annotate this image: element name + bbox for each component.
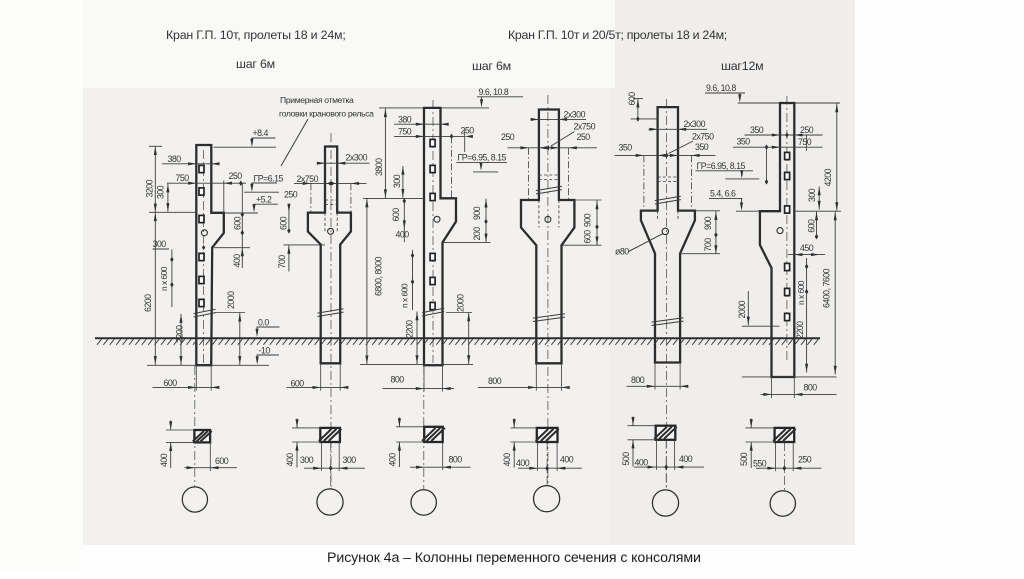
section S6 centerline [783,442,785,491]
svg-text:900: 900 [582,213,592,227]
section S2 centerline [330,442,332,489]
rail axis line K1 [241,183,243,214]
svg-text:300: 300 [153,239,167,249]
column K2 hidden lines [325,199,337,201]
svg-text:2x300: 2x300 [346,152,368,162]
rail axes K2 [310,183,312,212]
svg-text:400: 400 [159,453,169,467]
svg-text:600: 600 [582,230,592,244]
svg-text:600: 600 [233,216,243,230]
rail axis K3 [451,136,453,198]
extension line K3 console level left [363,197,424,199]
section S2 hatched [319,428,341,442]
section S5 extension lines [628,425,656,427]
foundation bottom extension line [147,364,269,366]
note leader line [281,119,308,166]
pile circle S6 [770,491,795,516]
svg-text:n x 600: n x 600 [796,280,806,305]
section S6 hatched [773,428,795,442]
section S1 extension lines [166,429,194,431]
pile circle S2 [317,489,343,515]
rail axis K6 right [805,135,807,151]
svg-text:250: 250 [461,125,475,135]
column K3 embed plates [430,139,435,146]
svg-text:900: 900 [703,216,713,230]
column K1 embed plates [199,165,204,172]
column K1 outline [196,145,224,365]
section S5 dim 500 [632,417,634,426]
svg-text:головки кранового рельса: головки кранового рельса [279,109,374,119]
section S5 dims 400 400 [656,440,658,470]
svg-text:400: 400 [285,453,295,467]
svg-text:350: 350 [695,142,709,152]
svg-text:250: 250 [284,190,298,200]
column K4 hidden lines [539,174,559,176]
extension line K3 bottom [360,363,473,365]
column K1 hinge circle [201,230,207,236]
svg-text:500: 500 [621,452,631,466]
column K6 outline [760,103,794,377]
svg-text:250: 250 [798,455,812,465]
extension lines K5 right [695,210,720,212]
svg-text:750: 750 [798,137,812,147]
svg-text:600: 600 [164,378,178,388]
section S6 dims 550 250 [775,442,777,471]
rail dimension line K4 [508,147,598,149]
svg-text:800: 800 [488,376,502,386]
column K2 hinge circle [328,228,334,234]
level line +5.2 console top [224,212,258,214]
svg-text:300: 300 [392,174,402,188]
ground hatching [97,339,818,345]
section S1 hatched [193,430,212,442]
svg-text:400: 400 [502,453,512,467]
svg-text:ø80: ø80 [615,247,629,257]
svg-text:ГР=6.15: ГР=6.15 [254,173,284,183]
svg-text:шаг12м: шаг12м [721,59,763,73]
column K1 node diamond [202,245,205,250]
svg-text:800: 800 [449,455,463,465]
svg-text:300: 300 [300,455,314,465]
svg-text:9.6, 10.8: 9.6, 10.8 [479,87,509,97]
svg-text:2200: 2200 [795,321,805,339]
svg-text:380: 380 [398,114,412,124]
section S4 dims 400 400 [537,442,539,471]
section S2 extension lines [292,427,320,429]
section S3 hatched [422,427,445,442]
svg-text:Кран Г.П. 10т, пролеты 18 и 24: Кран Г.П. 10т, пролеты 18 и 24м; [166,28,346,42]
extension line K3 break level [446,312,472,314]
svg-text:3800: 3800 [374,158,384,176]
svg-text:750: 750 [398,127,412,137]
svg-text:550: 550 [753,459,767,469]
svg-text:6400, 7600: 6400, 7600 [822,268,832,308]
section S4 dim 400 vertical [513,419,515,428]
svg-text:250: 250 [229,171,243,181]
svg-text:+5.2: +5.2 [256,194,272,204]
level line GR1 [473,171,498,173]
column K5 hidden lines [658,176,678,178]
extension line K4 taper end [563,244,602,246]
pile circle S1 [182,487,207,512]
svg-text:250: 250 [577,132,591,142]
section S4 centerline [546,442,548,485]
extension line K6 console level right [795,210,842,212]
svg-text:Примерная отметка: Примерная отметка [280,95,354,105]
column K6 hinge circle [777,228,783,234]
extension line K6 console level left [736,210,760,212]
ground line [95,337,820,339]
svg-text:шаг 6м: шаг 6м [472,59,511,73]
svg-text:Кран Г.П. 10т и 20/5т; пролеты: Кран Г.П. 10т и 20/5т; пролеты 18 и 24м; [508,28,727,42]
svg-text:2x300: 2x300 [684,119,706,129]
column K3 top level line [379,107,489,109]
svg-text:250: 250 [800,125,814,135]
column K2 break mark [318,309,344,313]
section S5 hatched [654,426,676,440]
hole circle K5 [662,228,668,234]
section S3 centerline [423,366,425,490]
column K3 break mark [422,308,444,312]
column K4 hinge circle [545,216,551,222]
column K1 break mark [194,309,216,313]
svg-text:400: 400 [232,254,242,268]
section S4 hatched [536,428,559,442]
svg-text:400: 400 [396,229,410,239]
column K1 axis centerline [203,150,205,363]
column K3 axis centerline [432,100,434,363]
section S1 centerline [194,366,196,487]
column K4 axis centerline [547,95,549,485]
extension line K1 taper end [214,247,250,249]
extension lines K3 console right [456,197,491,199]
svg-text:500: 500 [739,452,749,466]
column K5 break mark [655,196,681,200]
extension line K6 2000 [742,325,780,327]
rail dimension line K5 [615,154,716,156]
svg-text:ГР=6.95, 8.15: ГР=6.95, 8.15 [697,161,746,171]
extension line K1 break level [214,312,245,314]
svg-text:300: 300 [156,185,166,199]
svg-text:600: 600 [391,208,401,222]
rail axis K6 [766,147,768,182]
pile circle S4 [534,486,560,512]
svg-text:n x 600: n x 600 [400,283,410,308]
svg-text:2x750: 2x750 [574,122,596,132]
svg-text:250: 250 [501,132,515,142]
svg-text:700: 700 [703,238,713,252]
column K2 axis centerline [330,133,332,489]
svg-text:2000: 2000 [456,294,466,312]
section S2 dim 400 [296,419,298,428]
svg-text:2200: 2200 [404,320,414,338]
svg-text:300: 300 [343,455,357,465]
svg-text:400: 400 [560,455,574,465]
svg-text:ГР=6.95, 8.15: ГР=6.95, 8.15 [458,153,507,163]
section S3 extension lines [396,426,424,428]
extension line console level K1 left [149,211,196,213]
section S5 centerline [665,440,667,490]
svg-text:2000: 2000 [226,291,236,309]
svg-text:2x750: 2x750 [692,132,714,142]
extension line K5 600 [631,118,658,120]
svg-text:3200: 3200 [145,179,155,197]
pile circle S5 [652,490,678,516]
section S3 dim 400 [398,418,400,427]
svg-text:600: 600 [807,219,817,233]
svg-text:600: 600 [291,378,305,388]
rail axes K5 [643,155,645,210]
svg-text:шаг 6м: шаг 6м [236,57,275,71]
extension line K2 taper end [284,244,326,246]
svg-text:2x300: 2x300 [564,109,586,119]
svg-text:400: 400 [387,453,397,467]
section S6 dim 500 [750,419,752,428]
svg-text:Рисунок 4а – Колонны переменно: Рисунок 4а – Колонны переменного сечения… [327,550,701,566]
svg-text:5.4, 6.6: 5.4, 6.6 [710,188,736,198]
rail axes K4 [528,148,530,200]
svg-text:0.0: 0.0 [258,317,269,327]
svg-text:900: 900 [472,206,482,220]
svg-text:2200: 2200 [175,325,185,343]
level line GR2 [725,178,759,180]
extension line K6 bottom [742,376,837,378]
svg-text:600: 600 [215,456,229,466]
svg-text:800: 800 [631,375,645,385]
svg-text:6200: 6200 [143,294,153,312]
svg-text:2000: 2000 [737,300,747,318]
column K6 axis centerline [786,96,788,363]
section S1 dim 600 [185,467,238,469]
svg-text:300: 300 [807,188,817,202]
svg-text:450: 450 [800,243,814,253]
svg-text:800: 800 [804,382,818,392]
level line GR 6.15 [244,191,279,193]
level line +8.4 [214,146,277,148]
hole leader K5 [629,234,664,252]
svg-text:+8.4: +8.4 [253,128,269,138]
section S6 extension lines [746,427,775,429]
column K3 hinge circle [434,216,440,222]
svg-text:400: 400 [635,458,649,468]
extension line K4 shoulder [574,199,601,201]
column K2 outline [308,147,351,364]
column K6 embed plates [785,152,790,159]
svg-text:600: 600 [278,216,288,230]
svg-text:380: 380 [168,154,182,164]
svg-text:n x 600: n x 600 [159,266,169,291]
svg-text:400: 400 [516,458,530,468]
column K5 outline [641,107,695,362]
svg-text:4200: 4200 [823,168,833,186]
svg-text:750: 750 [176,173,190,183]
column K4 outline [521,110,574,364]
section S2 dims 300 300 [320,442,322,471]
svg-text:9.6, 10.8: 9.6, 10.8 [706,83,736,93]
column K5 axis centerline [665,99,667,490]
svg-text:350: 350 [750,125,764,135]
svg-text:700: 700 [277,255,287,269]
column K3 outline [424,108,456,365]
section S3 dim 800 [442,442,444,470]
svg-text:-10: -10 [259,345,271,355]
svg-text:2x750: 2x750 [297,174,319,184]
svg-text:350: 350 [737,136,751,146]
section S1 dim 400 [170,421,172,431]
svg-text:200: 200 [472,227,482,241]
section S4 extension lines [511,427,537,429]
column K4 break marks [536,186,562,190]
svg-text:350: 350 [619,142,633,152]
svg-text:800: 800 [391,374,405,384]
column K5 shoulder hidden lines [657,211,659,221]
svg-text:6800, 8000: 6800, 8000 [374,256,384,296]
pile circle S3 [411,490,436,515]
column K6 top level line [738,102,840,104]
svg-text:400: 400 [679,454,693,464]
